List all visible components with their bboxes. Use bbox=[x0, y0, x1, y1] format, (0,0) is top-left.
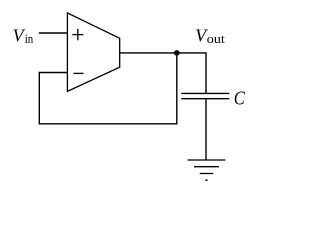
svg-text:C: C bbox=[234, 87, 246, 109]
svg-text:out: out bbox=[207, 31, 225, 46]
svg-text:in: in bbox=[25, 31, 34, 46]
